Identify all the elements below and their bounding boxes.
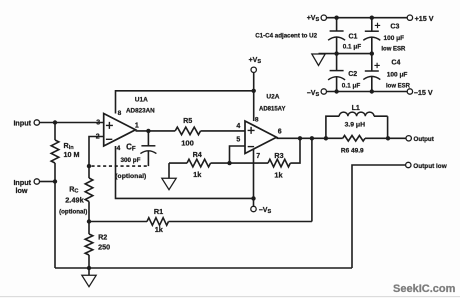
wire: R5 to U2A +in <box>201 130 245 132</box>
wire: input to U1A pin 3 <box>40 122 104 124</box>
wire: -VS stub <box>253 198 255 206</box>
ground: R4 <box>168 163 170 178</box>
wire: U2A pin 5 to feedback node <box>230 146 246 163</box>
svg-text:C4: C4 <box>391 59 400 66</box>
svg-text:+15 V: +15 V <box>415 14 434 23</box>
resistor Rin 10 M <box>54 123 56 141</box>
node: feedback junction <box>227 161 231 165</box>
svg-text:–VS: –VS <box>307 90 320 98</box>
inductor L1 3.9 uH <box>326 116 339 138</box>
svg-text:R6 49.9: R6 49.9 <box>341 147 364 154</box>
wire: left rail down <box>54 182 56 269</box>
svg-text:–VS: –VS <box>259 207 272 215</box>
node: RC/R2/R1 junction <box>87 219 91 223</box>
node: C4 bottom <box>370 89 374 93</box>
svg-text:1: 1 <box>135 123 139 130</box>
svg-text:3.9 μH: 3.9 μH <box>345 122 365 129</box>
svg-text:C3: C3 <box>390 24 399 31</box>
svg-text:300 pF: 300 pF <box>121 157 141 164</box>
svg-text:250: 250 <box>98 242 110 251</box>
svg-text:U2A: U2A <box>266 94 279 101</box>
node: -VS junction <box>251 196 255 200</box>
ground: supply <box>312 54 325 66</box>
capacitor C3 100 uF low ESR <box>371 18 373 32</box>
node: C1 top <box>334 16 338 20</box>
node: C1 bottom <box>334 51 338 55</box>
resistor R6 49.9 <box>343 136 365 142</box>
resistor R3 1k <box>268 159 290 167</box>
svg-text:+VS: +VS <box>307 15 320 23</box>
terminal: Output low <box>406 162 411 167</box>
resistor R5 100 <box>175 127 200 135</box>
resistor RC 2.49k (optional) <box>88 166 90 178</box>
wire: node to R3 <box>230 162 269 164</box>
svg-text:+VS: +VS <box>249 57 262 65</box>
svg-text:–15 V: –15 V <box>414 88 433 97</box>
wire: U1A out <box>136 130 176 132</box>
svg-text:2.49k: 2.49k <box>65 196 84 205</box>
svg-text:R5: R5 <box>183 116 192 125</box>
terminal: +VS supply <box>321 15 326 20</box>
wire: bottom rail <box>55 267 352 269</box>
node: R3 tap <box>298 136 302 140</box>
node: R1 tap <box>310 136 314 140</box>
svg-text:4: 4 <box>236 123 240 130</box>
terminal: Output <box>406 136 411 141</box>
svg-text:7: 7 <box>256 153 260 160</box>
svg-text:R4: R4 <box>193 150 202 159</box>
wire: U1A pin 8 to +V rail <box>116 91 254 114</box>
svg-text:RC: RC <box>69 184 78 194</box>
svg-text:CF: CF <box>126 142 136 152</box>
svg-text:1k: 1k <box>193 170 202 179</box>
op-amp U2A AD815AY <box>245 121 277 154</box>
wire: dashed optional link <box>92 165 149 167</box>
svg-text:Input: Input <box>13 118 31 127</box>
capacitor CF 300 pF (optional) <box>147 131 149 146</box>
svg-text:100: 100 <box>181 139 194 148</box>
svg-text:1k: 1k <box>155 225 164 234</box>
node: C3 bottom <box>370 51 374 55</box>
wire: U2A pin 7 down to -VS (crossover) <box>253 149 255 198</box>
wire: U1A pin 2 loop <box>89 137 104 167</box>
node: C3 top <box>370 16 374 20</box>
svg-text:AD815AY: AD815AY <box>259 107 285 113</box>
svg-text:R1: R1 <box>154 207 163 216</box>
wire: -V supply rail <box>327 91 408 93</box>
svg-text:R2: R2 <box>98 233 107 242</box>
svg-text:100 μF: 100 μF <box>387 72 408 79</box>
svg-text:low ESR: low ESR <box>386 84 411 90</box>
node: L1/R6 right <box>386 136 390 140</box>
wire: U1A pin 4 to -VS node <box>116 146 254 198</box>
node: CF tap <box>146 129 150 133</box>
svg-text:0.1 μF: 0.1 μF <box>343 44 362 51</box>
svg-text:C1: C1 <box>349 33 358 40</box>
svg-text:SeekIC.com: SeekIC.com <box>393 283 456 295</box>
node: L1/R6 left <box>324 136 328 140</box>
svg-text:100 μF: 100 μF <box>384 35 405 42</box>
wire: U2A output line <box>277 137 343 139</box>
svg-text:10 M: 10 M <box>64 150 80 159</box>
node: input low junction <box>53 179 57 183</box>
svg-text:6: 6 <box>278 128 282 135</box>
svg-text:3: 3 <box>96 119 100 126</box>
svg-text:5: 5 <box>236 137 240 144</box>
ground: main <box>88 268 90 275</box>
wire: +V supply rail <box>327 17 408 19</box>
resistor R2 250 <box>88 222 90 235</box>
scan artifact: bottom edge <box>0 296 460 298</box>
svg-text:8: 8 <box>118 110 122 117</box>
node: C2 bottom <box>334 89 338 93</box>
wire: mid rail <box>319 53 372 55</box>
op-amp U1A AD823AN <box>104 114 136 147</box>
svg-text:C2: C2 <box>348 71 357 78</box>
node: pin2/RC junction <box>87 164 91 168</box>
svg-text:Output low: Output low <box>413 163 446 170</box>
terminal: +VS <box>251 67 256 72</box>
node: input junction <box>53 120 57 124</box>
node: bottom ground junction <box>87 266 91 270</box>
svg-text:1k: 1k <box>274 170 283 179</box>
resistor R4 1k <box>169 162 187 164</box>
wire: +VS stub <box>253 72 255 90</box>
terminal: +15 V <box>407 15 412 20</box>
svg-text:(optional): (optional) <box>59 209 87 216</box>
svg-text:C1-C4 adjacent to U2: C1-C4 adjacent to U2 <box>255 33 317 40</box>
svg-text:U1A: U1A <box>135 97 148 104</box>
terminal: -VS supply <box>321 89 326 94</box>
svg-text:(optional): (optional) <box>115 173 146 180</box>
capacitor C4 100 uF low ESR <box>371 54 373 71</box>
svg-text:4: 4 <box>117 145 121 152</box>
terminal: Input low <box>34 179 39 184</box>
svg-text:8: 8 <box>255 116 259 123</box>
svg-text:R3: R3 <box>274 151 283 160</box>
svg-text:low ESR: low ESR <box>381 47 406 53</box>
resistor R1 1k <box>89 221 147 223</box>
svg-text:AD823AN: AD823AN <box>126 108 155 115</box>
terminal: -15 V <box>407 89 412 94</box>
svg-text:L1: L1 <box>352 105 360 112</box>
terminal: Input <box>34 120 39 125</box>
capacitor C1 0.1 uF <box>336 18 338 31</box>
terminal: -VS <box>251 206 256 211</box>
wire: input low stub <box>40 181 56 183</box>
svg-text:0.1 μF: 0.1 μF <box>342 83 361 90</box>
wire: rail to U2A pin 8 <box>253 91 255 121</box>
capacitor C2 0.1 uF <box>336 54 338 71</box>
node: +VS tap <box>252 89 256 93</box>
svg-text:low: low <box>16 186 28 195</box>
svg-text:Output: Output <box>414 136 434 143</box>
wire: output low path <box>352 165 406 268</box>
